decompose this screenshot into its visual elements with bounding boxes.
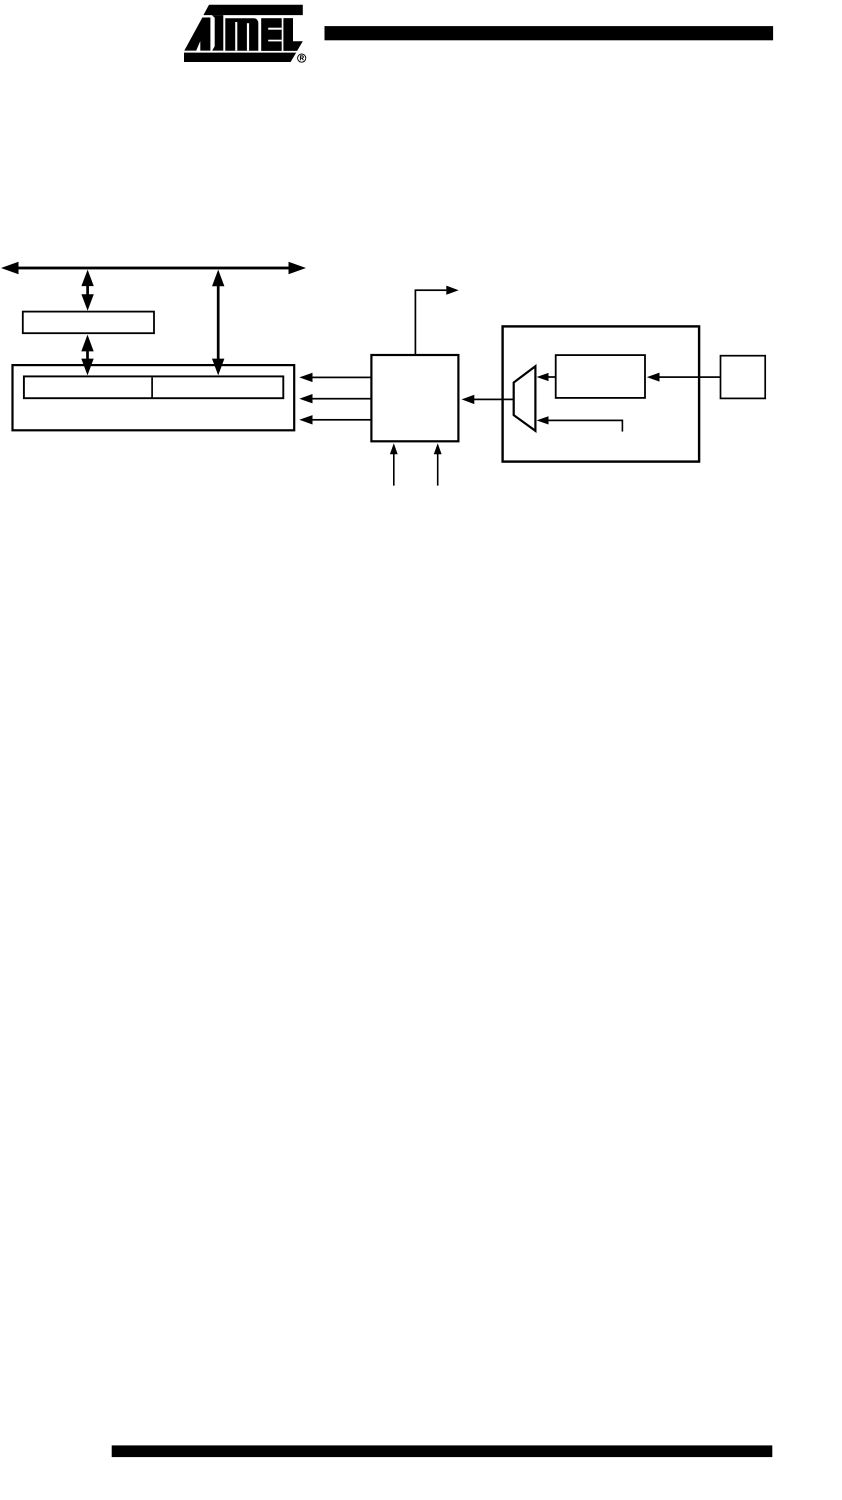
logo E slots bbox=[268, 28, 282, 30]
control bottom input wire 2 bbox=[434, 443, 442, 485]
mux output wire bbox=[462, 395, 514, 404]
mux lower input wire bbox=[537, 416, 624, 431]
Atmel logo bbox=[184, 5, 303, 62]
data bus bbox=[1, 262, 306, 274]
prescaler register box bbox=[556, 355, 645, 398]
logo letter A bbox=[184, 18, 210, 51]
control block bbox=[371, 355, 458, 441]
logo letter M bbox=[225, 18, 258, 51]
logo letter E bbox=[261, 18, 282, 51]
logo letter L bbox=[283, 18, 302, 51]
logo letter T bbox=[212, 15, 223, 51]
logo registered mark bbox=[298, 54, 306, 62]
header rule bar bbox=[325, 26, 774, 40]
interrupt output wire bbox=[415, 286, 459, 355]
footer rule bar bbox=[112, 1445, 773, 1457]
prescaler register to mux wire bbox=[537, 373, 556, 381]
logo bottom bar bbox=[184, 53, 296, 62]
control to register wire 1 bbox=[299, 373, 371, 382]
timer/counter outer box bbox=[13, 365, 295, 430]
logo top bar bbox=[203, 5, 302, 15]
register divider bbox=[151, 377, 153, 398]
wire bus to upper register (double arrow) bbox=[81, 270, 93, 311]
register pair inner box bbox=[24, 376, 283, 398]
prescaler outer box bbox=[503, 326, 699, 461]
control to register wire 2 bbox=[299, 394, 371, 403]
wire bus to counter register (long double arrow) bbox=[212, 270, 224, 376]
oscillator box bbox=[721, 356, 766, 399]
upper register box bbox=[23, 312, 154, 334]
clock mux bbox=[514, 366, 536, 431]
control to register wire 3 bbox=[299, 415, 371, 424]
oscillator to prescaler register wire bbox=[647, 373, 721, 382]
control bottom input wire 1 bbox=[390, 443, 398, 485]
wire upper register to counter register (double arrow) bbox=[81, 335, 93, 376]
logo M slots bbox=[235, 22, 237, 51]
